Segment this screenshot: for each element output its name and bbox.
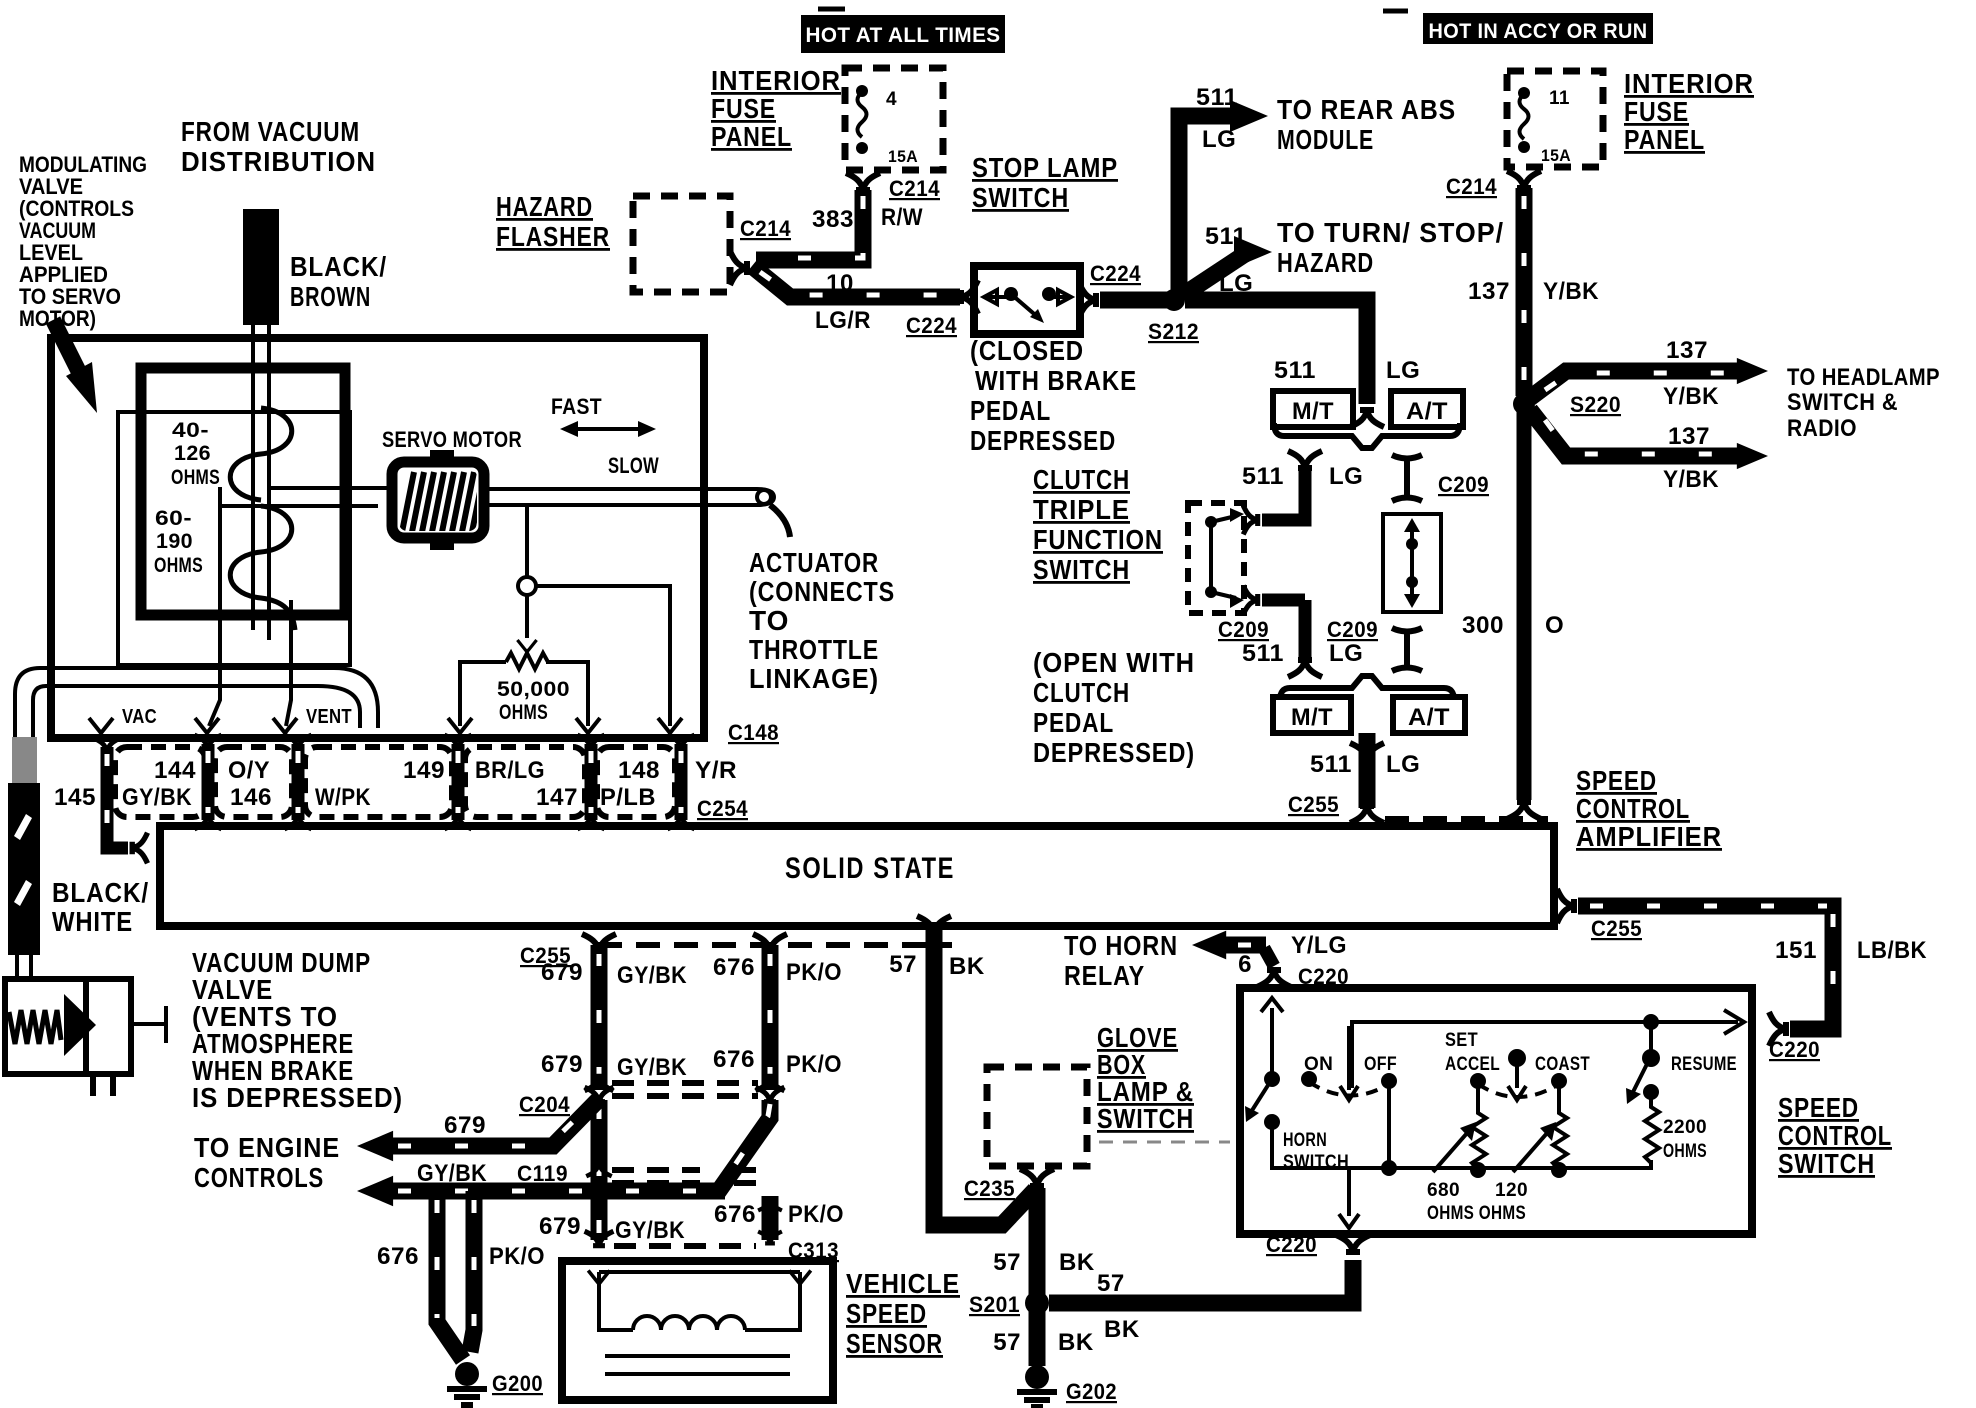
wire 137 Y/BK vertical from C214 to S220 — [1468, 188, 1599, 396]
svg-text:Y/R: Y/R — [695, 757, 737, 784]
resistor network bottom rail — [1272, 1160, 1651, 1168]
power tag: HOT AT ALL TIMES — [801, 15, 1005, 53]
labels 680 / 120 / OHMS OHMS — [1427, 1180, 1528, 1224]
svg-text:679: 679 — [444, 1112, 486, 1139]
svg-text:OFF: OFF — [1364, 1054, 1397, 1075]
fuse 11 15A (dashed box with fuse element) — [1507, 71, 1603, 167]
M/T box (upper) — [1273, 391, 1353, 427]
svg-text:LB/BK: LB/BK — [1857, 937, 1927, 964]
svg-text:145: 145 — [54, 784, 96, 811]
A/T clutch bypass box — [1383, 514, 1441, 612]
svg-text:Y/BK: Y/BK — [1663, 383, 1719, 410]
svg-text:FUNCTION: FUNCTION — [1033, 524, 1163, 555]
svg-text:DEPRESSED: DEPRESSED — [970, 425, 1116, 456]
svg-text:SWITCH: SWITCH — [1778, 1148, 1875, 1179]
svg-text:BK: BK — [949, 953, 985, 980]
svg-text:HAZARD: HAZARD — [1277, 247, 1374, 278]
svg-text:511: 511 — [1196, 84, 1238, 111]
svg-text:WITH BRAKE: WITH BRAKE — [975, 365, 1137, 396]
label (OPEN WITH CLUTCH PEDAL DEPRESSED) — [1033, 647, 1195, 768]
svg-text:GY/BK: GY/BK — [617, 962, 687, 989]
label STOP LAMP SWITCH — [972, 152, 1118, 213]
svg-text:C220: C220 — [1769, 1037, 1820, 1062]
wire 57 BK from S201 to speed control switch C220 — [1049, 1232, 1370, 1343]
svg-text:57: 57 — [889, 951, 917, 978]
svg-text:PEDAL: PEDAL — [1033, 707, 1114, 738]
svg-text:G200: G200 — [492, 1371, 543, 1396]
svg-text:AMPLIFIER: AMPLIFIER — [1576, 821, 1722, 852]
resistor network top rail with arrow to C220 — [1352, 1010, 1744, 1088]
svg-text:680: 680 — [1427, 1180, 1460, 1201]
label FROM VACUUM DISTRIBUTION — [181, 116, 376, 177]
svg-text:BK: BK — [1058, 1329, 1094, 1356]
wire 679 / 676 between C119 and C313 — [539, 1196, 844, 1244]
svg-text:OHMS OHMS: OHMS OHMS — [1427, 1203, 1526, 1224]
svg-text:137: 137 — [1468, 278, 1510, 305]
label SPEED CONTROL SWITCH — [1778, 1092, 1892, 1179]
M/T box (lower) — [1273, 697, 1351, 733]
svg-text:676: 676 — [714, 1201, 756, 1228]
svg-text:C214: C214 — [740, 216, 791, 241]
svg-text:S201: S201 — [969, 1292, 1020, 1317]
dashed connector row C255 below amplifier (left group) — [598, 942, 952, 948]
svg-text:300: 300 — [1462, 612, 1504, 639]
wiper node from actuator — [517, 505, 536, 652]
wire 676 PK/O (right vertical from C255 to C204) — [713, 934, 842, 1090]
svg-text:SWITCH: SWITCH — [1097, 1103, 1194, 1134]
svg-text:120: 120 — [1495, 1180, 1528, 1201]
wire 145 (circuit to vacuum dump region) — [93, 738, 147, 863]
svg-text:679: 679 — [541, 959, 583, 986]
svg-text:Y/BK: Y/BK — [1663, 466, 1719, 493]
svg-text:S220: S220 — [1570, 392, 1621, 417]
svg-text:TO: TO — [749, 605, 789, 636]
svg-text:C214: C214 — [889, 176, 940, 201]
svg-text:SWITCH &: SWITCH & — [1787, 389, 1898, 416]
svg-text:RADIO: RADIO — [1787, 415, 1857, 442]
wire 679 GY/BK from C204 down to C313 — [591, 1100, 608, 1240]
connector C204 (dashed rows between 679 and 676 wires) — [519, 1076, 784, 1117]
svg-text:PK/O: PK/O — [788, 1201, 844, 1228]
resistor 680 ohms (accel) — [1433, 1081, 1486, 1178]
ground G202 — [1017, 1365, 1117, 1407]
svg-text:57: 57 — [1097, 1270, 1125, 1297]
svg-text:FLASHER: FLASHER — [496, 221, 610, 252]
svg-text:6: 6 — [1238, 951, 1252, 978]
svg-text:GY/BK: GY/BK — [122, 784, 192, 811]
svg-text:INTERIOR: INTERIOR — [711, 65, 841, 96]
50,000 OHMS feedback resistor loop — [448, 653, 600, 733]
A/T box (lower) — [1393, 697, 1465, 733]
svg-text:511: 511 — [1205, 223, 1247, 250]
bracket under upper M/T A/T — [1274, 423, 1460, 448]
svg-text:G202: G202 — [1066, 1379, 1117, 1404]
connector row separators (wires through C148/C254) — [194, 735, 694, 829]
svg-text:OHMS: OHMS — [171, 466, 220, 489]
svg-text:CLUTCH: CLUTCH — [1033, 677, 1130, 708]
connector C224 at stop lamp switch (right) — [1079, 261, 1141, 317]
svg-text:DISTRIBUTION: DISTRIBUTION — [181, 146, 376, 177]
svg-text:ON: ON — [1304, 1054, 1333, 1075]
resistor 2200 ohms (resume) — [1643, 1084, 1707, 1170]
A/T box (upper) — [1391, 391, 1463, 427]
actuator rod from servo motor — [484, 489, 790, 537]
wire 10 LG/R from hazard flasher to stop lamp switch — [752, 266, 960, 338]
svg-text:148: 148 — [618, 757, 660, 784]
wire 57 BK from amplifier down to C235 — [889, 916, 1035, 1225]
label 40-126 OHMS — [171, 419, 220, 489]
label CLUTCH TRIPLE FUNCTION SWITCH — [1033, 464, 1163, 585]
wire 676 PK/O from C204 down with jog to C119 — [718, 1100, 770, 1192]
wire from C220 down into switch (horn feed) — [1261, 998, 1283, 1079]
svg-text:SOLID STATE: SOLID STATE — [785, 852, 955, 885]
wire 679 GY/BK branch TO ENGINE CONTROLS (upper arrow) — [194, 1097, 601, 1193]
svg-text:LG: LG — [1329, 640, 1363, 667]
svg-text:S212: S212 — [1148, 319, 1199, 344]
svg-text:511: 511 — [1242, 640, 1284, 667]
svg-text:676: 676 — [713, 954, 755, 981]
wire 679 GY/BK (left vertical from C255 to C204) — [541, 934, 687, 1090]
svg-text:C254: C254 — [697, 796, 748, 821]
svg-text:OHMS: OHMS — [1663, 1141, 1707, 1162]
svg-text:40-: 40- — [172, 419, 209, 442]
splice S220 — [1513, 392, 1621, 417]
svg-text:TO ENGINE: TO ENGINE — [194, 1132, 340, 1163]
svg-text:TO HORN: TO HORN — [1064, 930, 1178, 961]
connector C214 at hazard flasher — [730, 251, 747, 285]
vacuum hose from distribution (black bar) — [243, 209, 279, 325]
connector C313 (dashed row) — [585, 1231, 839, 1263]
svg-text:SPEED: SPEED — [1778, 1092, 1859, 1123]
vacuum tube to modulating valve (left, double line with elbow) — [15, 668, 378, 737]
svg-text:LG: LG — [1202, 126, 1236, 153]
speed control amplifier box SOLID STATE — [160, 826, 1554, 926]
svg-text:C119: C119 — [517, 1161, 568, 1186]
svg-text:O: O — [1545, 612, 1564, 639]
servo motor (hatched cylinder) — [392, 450, 484, 550]
speed control switch box — [1240, 988, 1752, 1234]
svg-text:BLACK/: BLACK/ — [52, 877, 149, 908]
svg-text:60-: 60- — [155, 507, 192, 530]
connector C209 A/T lower (I-beam) — [1392, 628, 1422, 671]
svg-text:149: 149 — [403, 757, 445, 784]
label MODULATING VALVE (CONTROLS VACUUM LEVEL APPLIED TO SERVO MOTOR) — [19, 152, 147, 331]
svg-text:15A: 15A — [888, 147, 918, 166]
VAC arrow at left inside servo box — [89, 718, 113, 733]
svg-text:BLACK/: BLACK/ — [290, 251, 387, 282]
stop lamp switch (box with switch symbol) — [974, 266, 1080, 334]
svg-text:Y/BK: Y/BK — [1543, 278, 1599, 305]
svg-text:SERVO MOTOR: SERVO MOTOR — [382, 427, 522, 452]
svg-text:C209: C209 — [1218, 617, 1269, 642]
fuse 4 15A (dashed box with fuse element) — [845, 68, 943, 170]
splice S212 — [1148, 289, 1199, 344]
power tag: HOT IN ACCY OR RUN — [1423, 13, 1653, 44]
svg-text:511: 511 — [1310, 751, 1352, 778]
svg-text:MODULE: MODULE — [1277, 124, 1374, 155]
svg-text:INTERIOR: INTERIOR — [1624, 68, 1754, 99]
svg-text:WHITE: WHITE — [52, 906, 133, 937]
svg-text:10: 10 — [826, 270, 854, 297]
svg-text:TRIPLE: TRIPLE — [1033, 494, 1130, 525]
svg-text:SENSOR: SENSOR — [846, 1328, 943, 1359]
label VACUUM DUMP VALVE (VENTS TO ATMOSPHERE WHEN BRAKE IS DEPRESSED) — [192, 947, 403, 1113]
svg-text:GY/BK: GY/BK — [615, 1217, 685, 1244]
label BLACK/ BROWN — [290, 251, 387, 312]
svg-text:LINKAGE): LINKAGE) — [749, 663, 879, 694]
wire 511 LG from lower M/T A/T down to C255 — [1288, 733, 1420, 823]
connector C209 A/T upper (I-beam) — [1392, 455, 1489, 501]
svg-text:RELAY: RELAY — [1064, 960, 1145, 991]
coil lead wires down to VAC / VENT arrows — [195, 487, 297, 733]
svg-text:LG: LG — [1386, 751, 1420, 778]
dashed connector line C255 at amplifier top right — [1385, 816, 1548, 822]
wire 511 LG diagonal from S212 with arrow TO TURN/ STOP/ HAZARD — [1183, 217, 1504, 297]
svg-text:(CLOSED: (CLOSED — [970, 335, 1084, 366]
label ACTUATOR (CONNECTS TO THROTTLE LINKAGE) — [749, 547, 895, 694]
wire 383 R/W from fuse 4 down to hazard flasher — [756, 190, 923, 260]
splice S201 — [969, 1291, 1049, 1317]
resistor 120 ohms (coast) — [1513, 1081, 1567, 1178]
svg-text:C214: C214 — [1446, 174, 1497, 199]
label SPEED CONTROL AMPLIFIER — [1576, 765, 1722, 852]
vacuum dump valve — [5, 979, 166, 1096]
svg-text:M/T: M/T — [1292, 398, 1334, 425]
svg-text:CONTROL: CONTROL — [1576, 793, 1690, 824]
svg-text:SPEED: SPEED — [1576, 765, 1657, 796]
ground G200 — [447, 1362, 543, 1405]
svg-text:SWITCH: SWITCH — [972, 182, 1069, 213]
connector C235 — [964, 1169, 1054, 1201]
connector C224 at stop lamp switch (left) — [961, 280, 978, 314]
svg-text:A/T: A/T — [1408, 704, 1450, 731]
connector C119 (dashed rows) — [612, 1170, 758, 1183]
wire 6 Y/LG TO HORN RELAY (arrow) — [1064, 930, 1349, 991]
svg-text:C209: C209 — [1327, 617, 1378, 642]
svg-text:GY/BK: GY/BK — [617, 1054, 687, 1081]
node branch right to C148 — [536, 586, 682, 733]
svg-text:137: 137 — [1668, 423, 1710, 450]
speed control servo outer box — [51, 338, 704, 738]
wire 151 LB/BK from amplifier to C220 — [1557, 889, 1927, 1062]
svg-text:ACCEL: ACCEL — [1445, 1054, 1500, 1075]
svg-text:TO REAR ABS: TO REAR ABS — [1277, 94, 1456, 125]
svg-text:BK: BK — [1059, 1249, 1095, 1276]
svg-text:57: 57 — [993, 1249, 1021, 1276]
svg-text:PK/O: PK/O — [786, 1051, 842, 1078]
connector row C148/C254 (dashed cavity boxes) — [115, 747, 675, 817]
svg-text:HAZARD: HAZARD — [496, 191, 593, 222]
set/accel/coast selector — [1445, 1030, 1590, 1100]
svg-text:4: 4 — [886, 89, 897, 110]
svg-text:SWITCH: SWITCH — [1033, 554, 1130, 585]
svg-text:(CONNECTS: (CONNECTS — [749, 576, 895, 607]
svg-text:OHMS: OHMS — [499, 701, 548, 724]
svg-text:SET: SET — [1445, 1030, 1478, 1051]
svg-text:11: 11 — [1549, 88, 1570, 109]
svg-text:P/LB: P/LB — [600, 784, 656, 811]
wire from C224 to splice S212 — [1100, 292, 1174, 309]
coil tap wires to servo motor — [218, 488, 392, 506]
svg-text:HOT AT ALL TIMES: HOT AT ALL TIMES — [806, 24, 1001, 47]
label (CLOSED WITH BRAKE PEDAL DEPRESSED — [970, 335, 1137, 456]
svg-text:CLUTCH: CLUTCH — [1033, 464, 1130, 495]
svg-text:THROTTLE: THROTTLE — [749, 634, 879, 665]
svg-text:137: 137 — [1666, 337, 1708, 364]
svg-text:C224: C224 — [906, 313, 957, 338]
svg-text:ACTUATOR: ACTUATOR — [749, 547, 879, 578]
modulating valve tube (double line through servo) — [253, 325, 269, 640]
svg-text:C255: C255 — [1288, 792, 1339, 817]
svg-text:O/Y: O/Y — [228, 757, 270, 784]
on/off switch lever and contacts — [1245, 1026, 1397, 1122]
svg-text:LG/R: LG/R — [815, 307, 871, 334]
svg-text:CONTROL: CONTROL — [1778, 1120, 1892, 1151]
svg-text:LG: LG — [1386, 357, 1420, 384]
wire 511 LG up from S212 with arrow TO REAR ABS MODULE — [1179, 84, 1456, 300]
svg-text:BROWN: BROWN — [290, 281, 371, 312]
svg-text:VEHICLE: VEHICLE — [846, 1268, 960, 1299]
svg-text:LG: LG — [1329, 463, 1363, 490]
svg-text:OHMS: OHMS — [154, 554, 203, 577]
svg-text:147: 147 — [536, 784, 578, 811]
wire 676 PK/O hairpin down to G200 — [377, 1191, 545, 1360]
svg-text:679: 679 — [539, 1213, 581, 1240]
svg-text:676: 676 — [713, 1046, 755, 1073]
svg-text:PK/O: PK/O — [786, 959, 842, 986]
svg-text:190: 190 — [156, 530, 193, 553]
svg-text:HOT IN ACCY OR RUN: HOT IN ACCY OR RUN — [1429, 20, 1648, 43]
wire 676 PK/O TO ENGINE CONTROLS (lower arrow) — [357, 1160, 725, 1206]
svg-text:511: 511 — [1242, 463, 1284, 490]
svg-text:FUSE: FUSE — [711, 93, 776, 124]
svg-text:C235: C235 — [964, 1176, 1015, 1201]
svg-text:STOP LAMP: STOP LAMP — [972, 152, 1118, 183]
svg-text:W/PK: W/PK — [315, 784, 371, 811]
svg-text:679: 679 — [541, 1051, 583, 1078]
modulating valve coil (lower, 60-190 ohms) — [230, 506, 295, 630]
svg-text:CONTROLS: CONTROLS — [194, 1162, 324, 1193]
svg-text:PANEL: PANEL — [1624, 124, 1705, 155]
svg-text:15A: 15A — [1541, 146, 1571, 165]
svg-text:RESUME: RESUME — [1671, 1054, 1737, 1075]
label 60-190 OHMS — [154, 507, 203, 577]
vacuum hose down to dump valve (stippled + black) — [8, 737, 40, 977]
servo inner box (thick) — [141, 368, 345, 615]
label: INTERIOR FUSE PANEL (right) — [1624, 68, 1754, 155]
label BLACK/ WHITE — [52, 877, 149, 937]
vehicle speed sensor — [562, 1261, 833, 1400]
glove box lamp & switch (dashed box) — [987, 1022, 1230, 1166]
svg-text:PEDAL: PEDAL — [970, 395, 1051, 426]
svg-text:IS DEPRESSED): IS DEPRESSED) — [192, 1082, 403, 1113]
svg-text:144: 144 — [154, 757, 196, 784]
wire 137 Y/BK lower branch to radio (arrow) — [1530, 410, 1768, 493]
hazard flasher (dashed box) — [496, 191, 791, 292]
svg-text:A/T: A/T — [1406, 398, 1448, 425]
svg-text:C204: C204 — [519, 1092, 570, 1117]
svg-text:VENT: VENT — [306, 706, 352, 728]
svg-text:DEPRESSED): DEPRESSED) — [1033, 737, 1195, 768]
svg-text:SPEED: SPEED — [846, 1298, 927, 1329]
svg-text:50,000: 50,000 — [497, 678, 570, 701]
svg-text:SWITCH: SWITCH — [1283, 1152, 1349, 1173]
resume switch — [1626, 1022, 1737, 1104]
svg-text:C209: C209 — [1438, 472, 1489, 497]
svg-text:383: 383 — [812, 206, 854, 233]
horn switch contact and wiring — [1264, 1081, 1397, 1176]
svg-text:COAST: COAST — [1535, 1054, 1590, 1075]
svg-text:M/T: M/T — [1291, 704, 1333, 731]
wire 57 BK from C235 through S201 to G202 — [993, 1188, 1095, 1366]
servo inner box (thin) — [118, 412, 350, 665]
connector C214 at fuse 11 — [1446, 171, 1541, 199]
page mark dashes — [818, 9, 1408, 11]
svg-text:HORN: HORN — [1283, 1130, 1327, 1151]
svg-text:PANEL: PANEL — [711, 121, 792, 152]
svg-text:C255: C255 — [1591, 916, 1642, 941]
svg-text:57: 57 — [993, 1329, 1021, 1356]
pin labels row: 144 GY/BK / O/Y 146 / 149 W/PK / BR/LG 147 / 148 P/LB / Y/R C254 — [54, 757, 748, 821]
wire 511 LG from S212 right then down to M/T-A/T — [1185, 300, 1420, 404]
svg-text:C148: C148 — [728, 720, 779, 745]
svg-text:C224: C224 — [1090, 261, 1141, 286]
svg-text:126: 126 — [174, 442, 211, 465]
connector C214 at fuse 4 — [846, 173, 940, 201]
svg-text:(OPEN WITH: (OPEN WITH — [1033, 647, 1195, 678]
svg-text:FAST: FAST — [551, 394, 602, 419]
svg-text:676: 676 — [377, 1243, 419, 1270]
label VEHICLE SPEED SENSOR — [846, 1268, 960, 1359]
pointer arrow from modulating valve label into servo box — [53, 320, 82, 378]
svg-text:151: 151 — [1775, 937, 1817, 964]
svg-text:BK: BK — [1104, 1316, 1140, 1343]
label TO HEADLAMP SWITCH & RADIO — [1787, 364, 1940, 442]
svg-text:Y/LG: Y/LG — [1291, 932, 1347, 959]
svg-text:VAC: VAC — [122, 706, 157, 728]
label: INTERIOR FUSE PANEL (left) — [711, 65, 841, 152]
clutch triple function switch (dashed box with switch) — [1188, 503, 1244, 613]
svg-text:TO HEADLAMP: TO HEADLAMP — [1787, 364, 1940, 391]
svg-text:511: 511 — [1274, 357, 1316, 384]
svg-text:TO TURN/ STOP/: TO TURN/ STOP/ — [1277, 217, 1504, 248]
wire 300 O from S220 down to amplifier C255 — [1462, 412, 1564, 819]
svg-text:2200: 2200 — [1663, 1117, 1707, 1138]
svg-text:SLOW: SLOW — [608, 453, 659, 478]
modulating valve coil (upper, 40-126 ohms) — [230, 408, 292, 500]
arrow down to C220 at box bottom — [1339, 1168, 1359, 1228]
svg-text:GY/BK: GY/BK — [417, 1160, 487, 1187]
svg-text:146: 146 — [230, 784, 272, 811]
svg-text:R/W: R/W — [881, 204, 923, 231]
svg-text:FROM VACUUM: FROM VACUUM — [181, 116, 360, 147]
wire 511 LG M/T branch from bracket down to clutch switch — [1218, 451, 1378, 677]
svg-text:FUSE: FUSE — [1624, 96, 1689, 127]
svg-text:BR/LG: BR/LG — [475, 757, 545, 784]
FAST / SLOW arrows — [551, 394, 659, 478]
lower bracket over M/T A/T — [1280, 676, 1454, 700]
wire 137 Y/BK upper branch to headlamp switch (arrow) — [1530, 337, 1768, 410]
svg-text:PK/O: PK/O — [489, 1243, 545, 1270]
